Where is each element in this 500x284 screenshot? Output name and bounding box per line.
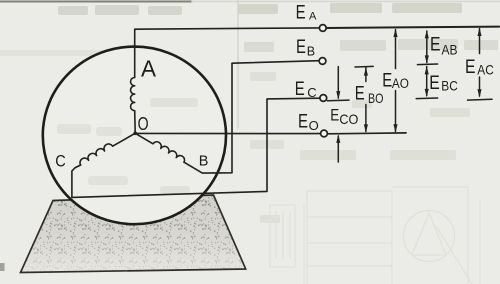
svg-text:E: E [382, 70, 392, 91]
dimension EBO line [365, 67, 367, 131]
arrowhead EAO down [393, 124, 397, 132]
dimension EBC tick [416, 97, 437, 100]
svg-text:B: B [199, 153, 209, 169]
dimension EAO line [395, 30, 397, 132]
arrowhead EAC down [477, 89, 481, 97]
winding coil C [80, 133, 135, 165]
dimension EBO tick [355, 65, 373, 68]
ghost figure: transformer box [270, 187, 480, 284]
svg-text:E: E [296, 37, 306, 58]
wire phase A lead [135, 28, 320, 78]
svg-text:B: B [307, 45, 315, 59]
dimension ECO tick [327, 99, 349, 102]
arrowhead EAC up [477, 28, 481, 36]
svg-text:E: E [355, 83, 365, 104]
dimension ECO upper line [337, 67, 339, 99]
ghost text row top [58, 3, 462, 15]
svg-text:AC: AC [477, 62, 494, 78]
svg-text:O: O [309, 118, 319, 133]
terminal EC [320, 95, 327, 102]
dimension EAB tick [417, 63, 437, 66]
ghost band left [0, 50, 136, 56]
ghost top edge dark streak [0, 1, 192, 3]
svg-text:A: A [309, 11, 317, 23]
arrowhead ECO up [336, 135, 340, 143]
arrowhead EBO down [364, 124, 368, 132]
arrowhead EBC down [425, 89, 429, 97]
svg-text:C: C [307, 85, 316, 100]
arrowhead EAO up [393, 29, 397, 37]
ghost text row mid-right [250, 72, 470, 223]
terminal EA [319, 25, 326, 32]
svg-text:E: E [298, 111, 308, 132]
node O junction dot [133, 132, 137, 136]
svg-text:O: O [138, 114, 149, 134]
wire phase B lead [184, 61, 319, 173]
svg-text:BC: BC [441, 78, 458, 94]
node EO reference line [328, 132, 407, 135]
stator base trapezoid [21, 195, 246, 273]
svg-text:BO: BO [368, 90, 384, 106]
arrowhead EAB down [425, 55, 429, 63]
arrowhead ECO down [336, 91, 340, 99]
terminal EO [321, 130, 328, 137]
dimension EAC line [479, 29, 481, 97]
dimension EAC tick [468, 98, 493, 101]
arrowhead EBO up [364, 67, 368, 75]
terminal EB [319, 58, 326, 65]
svg-text:CO: CO [339, 111, 358, 127]
svg-text:A: A [141, 56, 157, 82]
svg-text:E: E [430, 35, 441, 56]
svg-text:E: E [296, 2, 306, 23]
svg-text:E: E [295, 79, 305, 100]
wire phase C lead [72, 98, 320, 197]
wire neutral O lead [135, 132, 321, 134]
ghost text row 2 [244, 39, 498, 52]
svg-text:AO: AO [392, 76, 409, 91]
svg-text:E: E [330, 105, 339, 124]
ghost table line vertical [237, 0, 239, 128]
dimension ECO lower line [337, 136, 339, 162]
ghost mark bottom-left edge [0, 263, 5, 271]
winding coil B [135, 133, 184, 162]
svg-text:AB: AB [442, 41, 458, 57]
dimension EBC line [426, 67, 428, 96]
dimension EAB line [426, 31, 428, 63]
svg-text:E: E [465, 57, 476, 78]
svg-text:E: E [429, 73, 440, 94]
arrowhead EAB up [425, 30, 429, 38]
arrowhead EBC up [425, 66, 429, 74]
ghost bleed-through text inside circle [57, 98, 198, 194]
winding coil A [131, 78, 136, 134]
svg-text:C: C [55, 152, 66, 171]
node EA reference line [326, 27, 499, 28]
machine circle [43, 47, 226, 225]
